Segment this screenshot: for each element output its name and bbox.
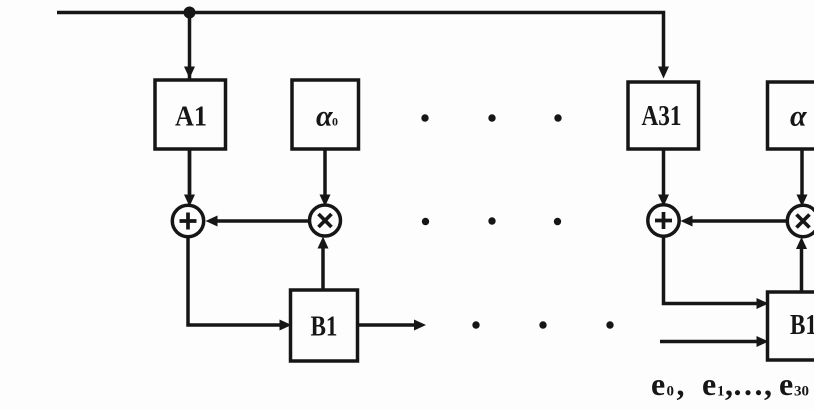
wire adder right down to B1 right <box>664 236 769 309</box>
svg-text:0: 0 <box>667 384 675 400</box>
multiplier circle right <box>787 205 814 236</box>
box alpha30 right edge clipped <box>768 82 814 149</box>
wire adder down to B1 <box>188 237 292 331</box>
box A1 <box>155 80 226 149</box>
svg-text:α: α <box>790 100 807 133</box>
wire second input to B1 right <box>660 336 769 347</box>
svg-text:A31: A31 <box>642 101 682 132</box>
wire top bus <box>57 13 669 79</box>
svg-text:0: 0 <box>332 115 338 129</box>
svg-text:1: 1 <box>717 384 725 400</box>
ellipsis dots row middle <box>422 217 561 225</box>
box B1 left <box>291 290 358 361</box>
svg-text:.: . <box>744 366 752 402</box>
wire B1 right up to multiplier <box>796 237 807 292</box>
node junction on top bus <box>184 7 196 19</box>
svg-text:e: e <box>651 366 665 402</box>
wire B1 output right <box>358 320 427 331</box>
svg-text:B1: B1 <box>790 310 814 341</box>
svg-text:.: . <box>734 366 742 402</box>
box A31 <box>628 82 699 149</box>
box a0 coefficient <box>292 80 359 149</box>
svg-text:e: e <box>779 366 793 402</box>
svg-text:.: . <box>755 366 763 402</box>
adder circle right <box>648 205 679 236</box>
box B1 right edge clipped <box>768 292 814 360</box>
svg-text:,: , <box>677 366 685 402</box>
wire B1 up to multiplier <box>318 237 329 291</box>
ellipsis dots row top <box>421 114 561 121</box>
adder circle left <box>172 205 203 236</box>
wire multiplier to adder <box>206 216 310 227</box>
svg-text:e: e <box>702 366 716 402</box>
svg-text:B1: B1 <box>311 312 338 343</box>
svg-text:,: , <box>725 366 733 402</box>
wire A1 to adder <box>184 149 195 207</box>
svg-text:α: α <box>316 100 333 133</box>
wire a0 to multiplier <box>320 149 331 207</box>
ellipsis dots row bottom <box>472 321 613 328</box>
wire alpha30 to multiplier right <box>797 149 808 207</box>
svg-text:30: 30 <box>794 384 809 400</box>
wire bus to A1 <box>184 13 195 195</box>
svg-text:A1: A1 <box>175 102 207 133</box>
wire A31 to adder right <box>658 149 669 207</box>
label outputs e0 e1 e30 <box>651 366 809 402</box>
svg-text:,: , <box>764 366 772 402</box>
wire multiplier to adder right <box>681 216 788 227</box>
multiplier circle left <box>310 205 341 236</box>
